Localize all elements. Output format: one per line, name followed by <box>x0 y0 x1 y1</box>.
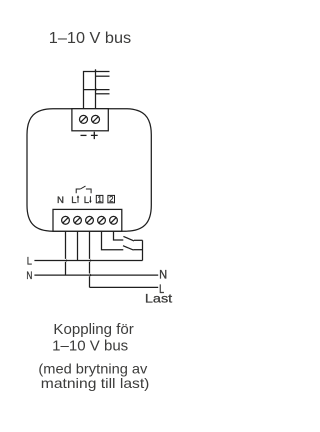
svg-text:L: L <box>27 256 32 268</box>
terminal block - + <box>72 109 108 131</box>
pushbutton lower right lead <box>134 249 143 251</box>
pushbutton contact lower blade <box>123 246 134 250</box>
crossing mark on minus stub at plus wire <box>96 88 98 90</box>
wire terminal 2 to pushbutton <box>114 231 124 240</box>
switched L line to load <box>90 286 159 288</box>
bus branch stub minus lower <box>84 89 110 91</box>
svg-text:Koppling för: Koppling för <box>53 321 133 338</box>
screw terminal N <box>62 216 70 224</box>
wire L-down terminal to load <box>89 231 91 287</box>
mains N line to load N <box>34 274 158 276</box>
wire-top mark on plus wire <box>94 69 96 71</box>
crossing mark L-down wire over N line <box>90 274 92 277</box>
svg-text:(med brytning av: (med brytning av <box>38 360 147 376</box>
svg-text:N: N <box>26 270 32 282</box>
screw terminal plus <box>92 115 100 123</box>
pushbutton contact upper blade <box>123 236 134 241</box>
svg-text:1–10 V bus: 1–10 V bus <box>49 30 132 47</box>
bus wire plus (right) <box>95 69 97 109</box>
arrow down at L2 <box>89 196 91 201</box>
svg-text:L: L <box>71 195 77 206</box>
screw terminal minus <box>80 115 88 123</box>
svg-text:L: L <box>84 195 90 206</box>
screw terminal 1 <box>98 216 106 224</box>
screw terminal L-down <box>86 216 94 224</box>
svg-text:1: 1 <box>98 195 102 204</box>
bus branch stub plus lower <box>96 93 110 95</box>
svg-text:N: N <box>159 268 167 282</box>
crossing mark L-down wire over L line <box>90 259 92 262</box>
pushbutton upper right lead <box>134 239 143 241</box>
label minus <box>81 134 87 136</box>
screw terminal L-up <box>74 216 82 224</box>
boxed label 2 <box>108 195 115 202</box>
internal relay contact symbol <box>76 189 91 193</box>
relay contact blade <box>80 186 85 189</box>
screw terminal 2 <box>110 216 118 224</box>
mains L line <box>34 260 142 262</box>
terminal block N L L 1 2 <box>53 209 122 231</box>
device outline <box>27 109 151 232</box>
boxed label 1 <box>96 195 103 202</box>
bus wire minus (left) with top branch stub <box>84 72 110 109</box>
wire terminal 1 to pushbutton <box>102 231 124 250</box>
svg-text:matning till last): matning till last) <box>41 375 150 391</box>
wire L-up terminal to L line <box>77 231 79 260</box>
label plus <box>91 132 98 139</box>
svg-text:N: N <box>57 195 64 206</box>
wire N terminal down <box>65 231 67 275</box>
svg-text:Last: Last <box>145 292 173 306</box>
bus branch stub plus upper <box>96 75 110 77</box>
svg-text:1–10 V bus: 1–10 V bus <box>52 338 128 355</box>
pushbutton common wire down to L line <box>142 240 144 260</box>
crossing mark N wire over L line <box>66 259 68 262</box>
arrow up at L1 <box>77 197 79 203</box>
svg-text:2: 2 <box>109 195 113 204</box>
